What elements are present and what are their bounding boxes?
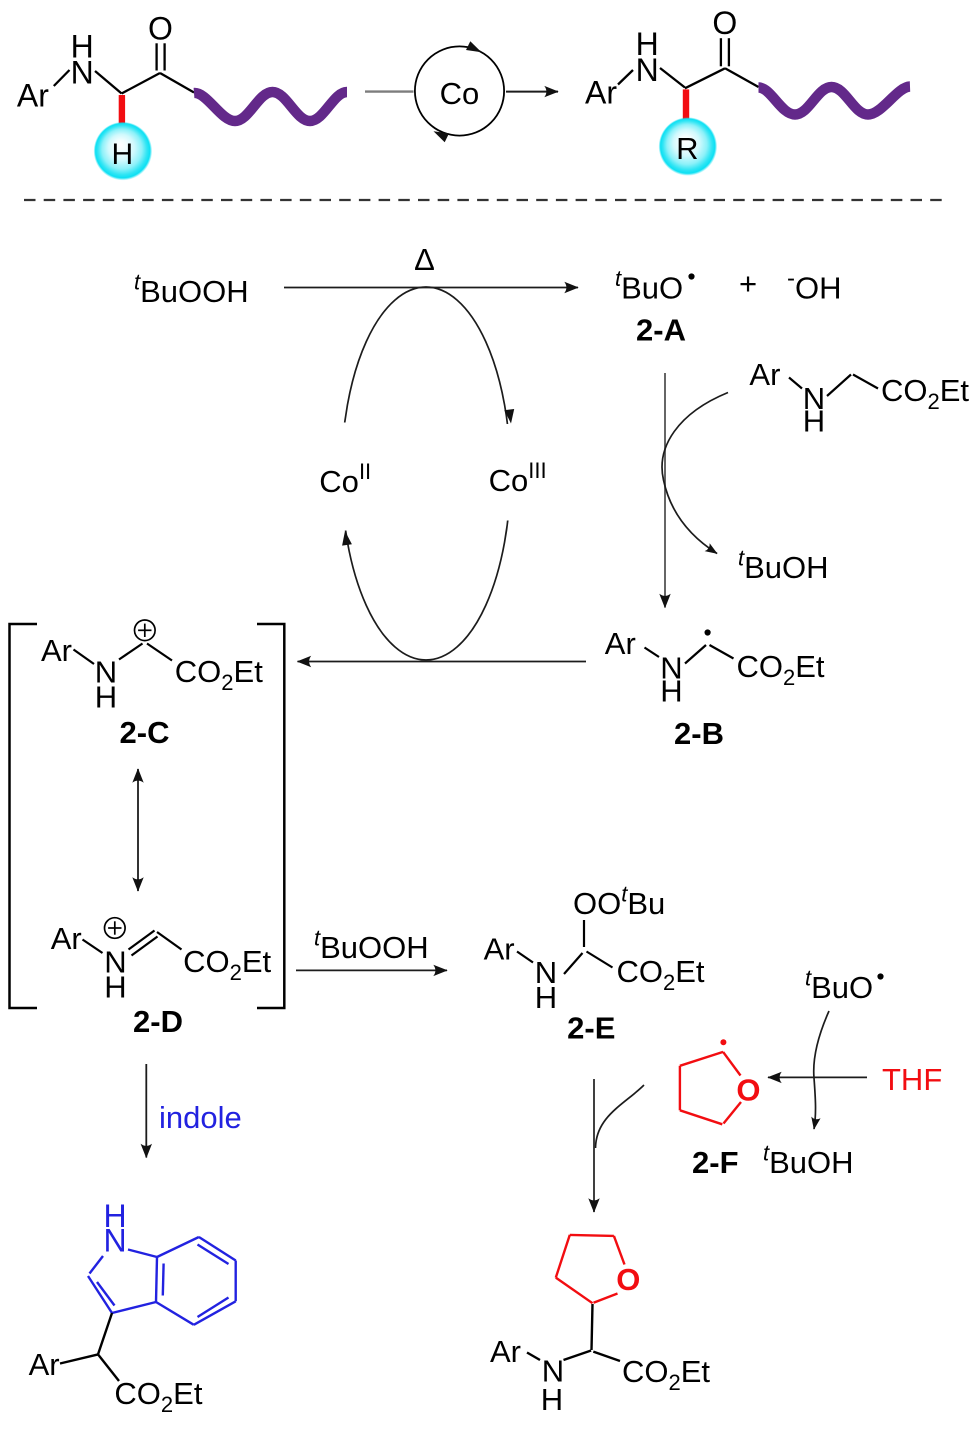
svg-text:O: O xyxy=(712,5,737,41)
svg-text:H: H xyxy=(803,404,825,439)
svg-text:Co: Co xyxy=(440,76,480,111)
svg-text:H: H xyxy=(111,138,133,171)
svg-text:CO2Et: CO2Et xyxy=(175,654,263,695)
svg-text:tBuOH: tBuOH xyxy=(763,1141,854,1181)
svg-text:THF: THF xyxy=(882,1062,942,1097)
svg-text:tBuO: tBuO xyxy=(805,966,873,1006)
svg-text:Ar: Ar xyxy=(41,633,72,668)
svg-text:2-A: 2-A xyxy=(636,313,686,348)
svg-text:Ar: Ar xyxy=(484,932,515,967)
svg-text:H: H xyxy=(541,1382,563,1417)
svg-text:Ar: Ar xyxy=(585,75,617,111)
svg-text:2-E: 2-E xyxy=(567,1011,615,1046)
svg-text:-: - xyxy=(787,265,795,292)
svg-text:2-F: 2-F xyxy=(692,1145,739,1180)
svg-text:O: O xyxy=(736,1072,760,1107)
svg-text:Ar: Ar xyxy=(51,921,82,956)
svg-text:tBuO: tBuO xyxy=(615,266,683,306)
svg-text:Δ: Δ xyxy=(414,242,435,277)
svg-text:CO2Et: CO2Et xyxy=(617,954,705,995)
svg-text:H: H xyxy=(95,680,117,715)
svg-text:+: + xyxy=(739,266,757,301)
svg-text:2-B: 2-B xyxy=(674,716,724,751)
svg-text:Ar: Ar xyxy=(490,1334,521,1369)
svg-text:O: O xyxy=(148,10,173,46)
svg-text:CO2Et: CO2Et xyxy=(183,944,271,985)
svg-text:H: H xyxy=(636,26,659,62)
svg-text:H: H xyxy=(104,970,126,1005)
svg-text:indole: indole xyxy=(159,1100,242,1135)
svg-text:tBuOOH: tBuOOH xyxy=(314,926,429,966)
svg-text:Ar: Ar xyxy=(29,1347,60,1382)
svg-text:Ar: Ar xyxy=(749,357,780,392)
svg-text:tBuOH: tBuOH xyxy=(738,546,829,586)
svg-text:R: R xyxy=(676,131,698,166)
svg-text:OOtBu: OOtBu xyxy=(573,882,665,922)
svg-text:tBuOOH: tBuOOH xyxy=(134,270,249,310)
svg-text:H: H xyxy=(71,29,94,65)
svg-text:H: H xyxy=(535,980,557,1015)
svg-text:CO2Et: CO2Et xyxy=(737,649,825,690)
svg-text:N: N xyxy=(103,1222,126,1258)
svg-text:Ar: Ar xyxy=(605,626,636,661)
svg-text:CO2Et: CO2Et xyxy=(622,1354,710,1395)
svg-text:OH: OH xyxy=(795,271,842,306)
svg-text:2-C: 2-C xyxy=(120,715,170,750)
svg-text:Ar: Ar xyxy=(17,78,49,114)
svg-text:H: H xyxy=(660,674,682,709)
svg-text:O: O xyxy=(616,1262,640,1297)
svg-text:2-D: 2-D xyxy=(133,1004,183,1039)
svg-text:CO2Et: CO2Et xyxy=(114,1376,202,1417)
svg-text:CO2Et: CO2Et xyxy=(881,373,969,414)
